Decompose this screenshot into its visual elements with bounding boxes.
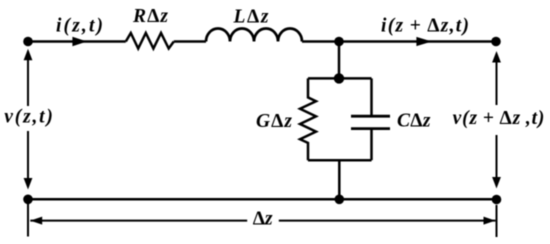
svg-text:v(z + Δz ,t): v(z + Δz ,t) (453, 108, 545, 129)
svg-text:RΔz: RΔz (132, 6, 168, 27)
svg-text:LΔz: LΔz (233, 7, 269, 28)
svg-text:Δz: Δz (253, 208, 273, 229)
svg-text:v(z,t): v(z,t) (4, 107, 53, 128)
svg-text:GΔz: GΔz (256, 111, 292, 132)
svg-text:CΔz: CΔz (397, 111, 431, 132)
svg-text:i(z,t): i(z,t) (56, 16, 103, 37)
svg-text:i(z + Δz,t): i(z + Δz,t) (381, 16, 469, 37)
